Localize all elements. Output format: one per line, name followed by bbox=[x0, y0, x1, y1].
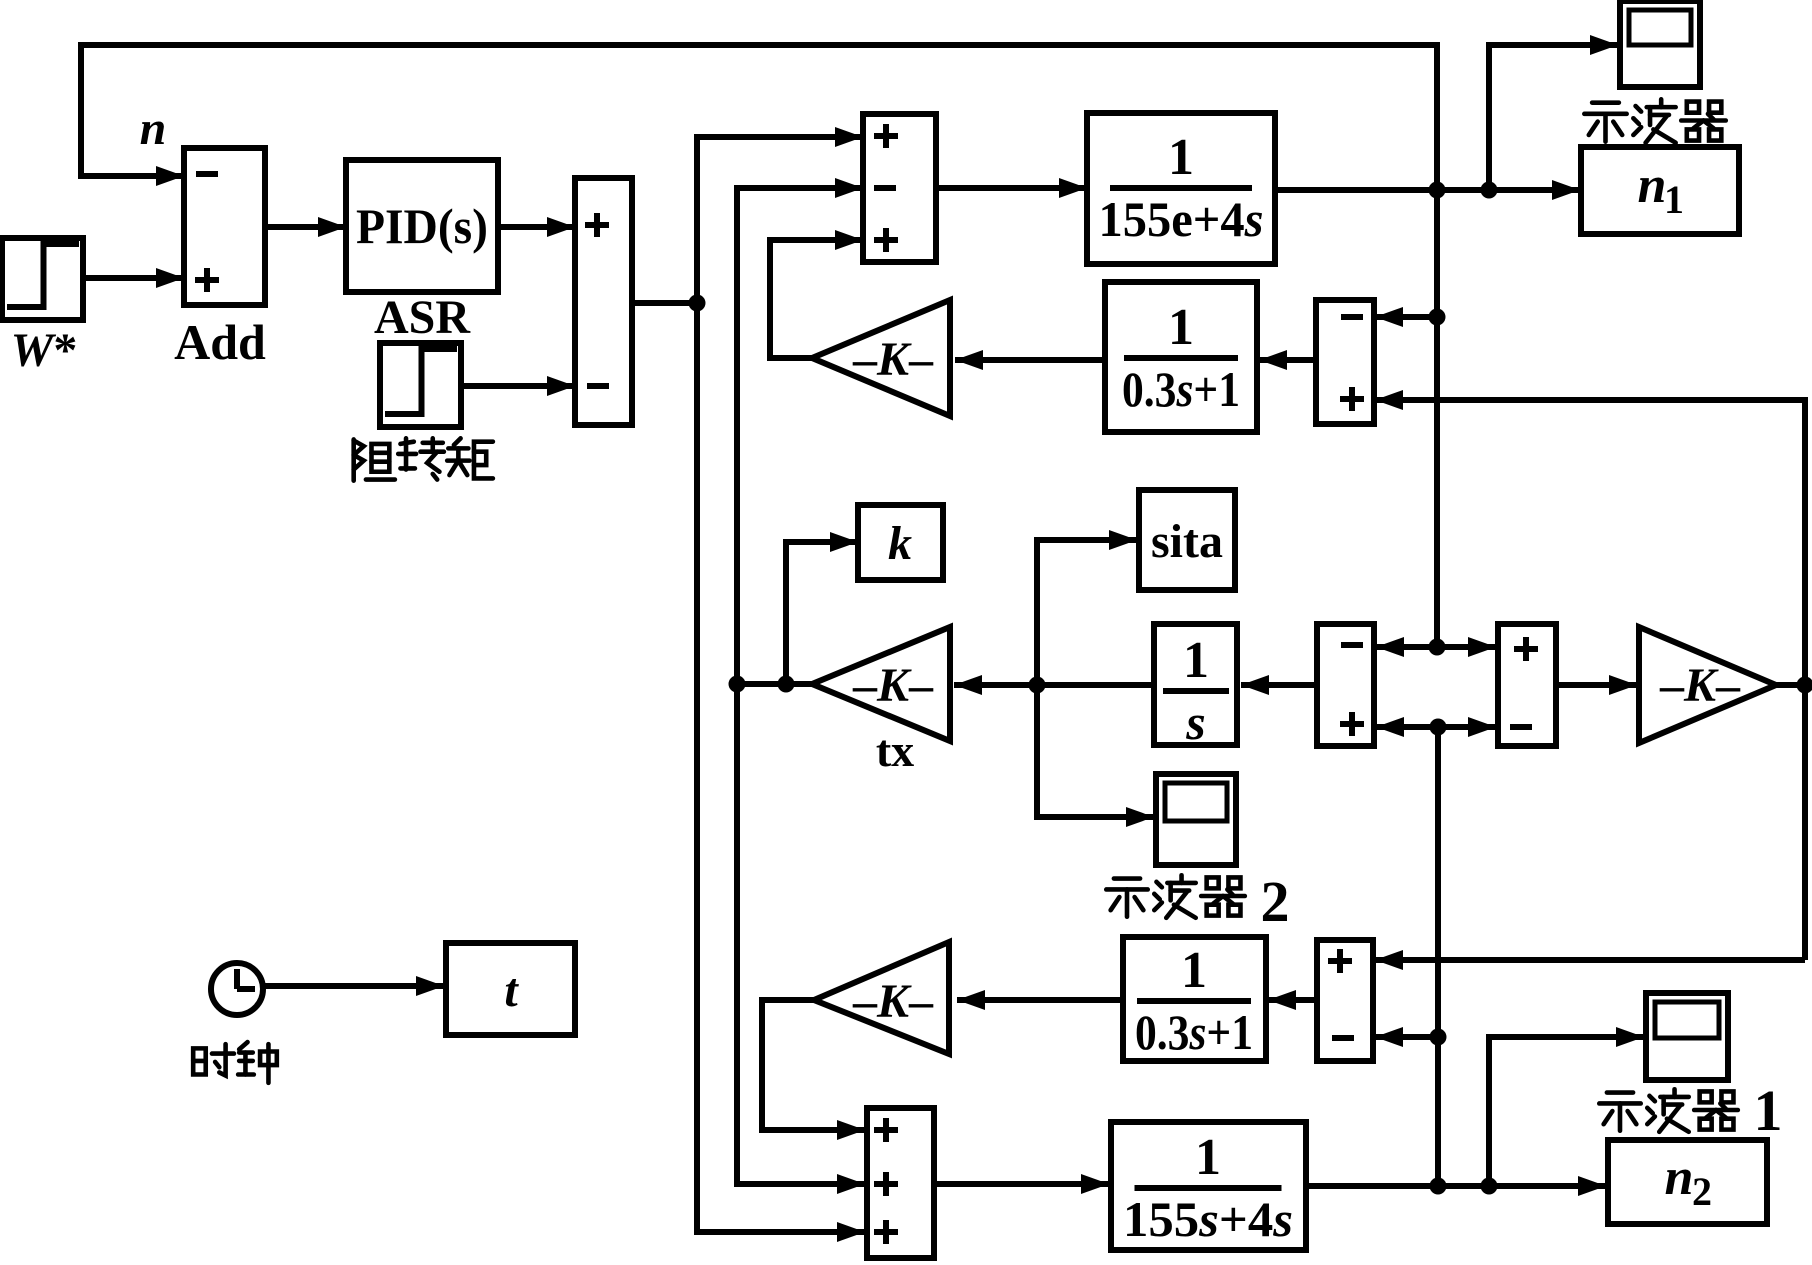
output block sita bbox=[1139, 490, 1235, 590]
wire n1 vertical to S3/S4 top inputs bbox=[1376, 637, 1496, 657]
svg-text:PID(s): PID(s) bbox=[356, 198, 488, 254]
label 示波器 2 bbox=[1106, 869, 1289, 934]
svg-text:1: 1 bbox=[1181, 942, 1207, 999]
wire far right vertical to S2 plus bbox=[1375, 390, 1805, 960]
transfer fcn 1/155s+4s bbox=[1111, 1122, 1306, 1250]
scope 示波器 bbox=[1620, 1, 1700, 87]
label n (feedback signal) bbox=[140, 102, 167, 155]
step source W* bbox=[2, 238, 83, 320]
wire S2 to 1/0.3s+1 bbox=[1259, 350, 1316, 370]
step source 阻转矩 bbox=[380, 343, 461, 427]
node n2 junction bbox=[1430, 1178, 1447, 1195]
wire mid node to sita bbox=[1037, 530, 1137, 685]
wire vertical x697 to S1 and S5 bbox=[697, 127, 865, 1242]
sum block S2 bbox=[1316, 300, 1374, 424]
wire S3 to 1/s bbox=[1241, 675, 1317, 695]
wire S0 output to node A bbox=[632, 300, 697, 306]
wire 阻转矩 to S0 minus bbox=[461, 376, 575, 396]
wire n2 vertical to S3/S4 bottom inputs bbox=[1376, 717, 1496, 1186]
wire n1 branch to S2 minus bbox=[1375, 307, 1446, 327]
svg-text:1: 1 bbox=[1183, 632, 1209, 689]
svg-text:–K–: –K– bbox=[852, 659, 934, 712]
wire tx output to x737 node bbox=[729, 676, 813, 693]
wire top feedback n1 to Add minus bbox=[81, 45, 1437, 647]
wire branch to scope1 bbox=[1489, 1027, 1644, 1186]
wire W* to Add plus bbox=[83, 268, 184, 288]
gain tx -K- bbox=[812, 627, 950, 741]
label W* bbox=[11, 324, 78, 377]
label 示波器 bbox=[1584, 99, 1725, 142]
svg-text:W*: W* bbox=[11, 324, 78, 377]
svg-text:0.3s+1: 0.3s+1 bbox=[1122, 361, 1240, 417]
svg-text:Add: Add bbox=[174, 314, 266, 370]
svg-text:n: n bbox=[1665, 1149, 1694, 1206]
sum block S3 bbox=[1317, 624, 1374, 746]
wire 1/155e+4s to n1 bbox=[1275, 180, 1580, 200]
gain block k bbox=[858, 505, 943, 580]
svg-text:1: 1 bbox=[1168, 299, 1194, 356]
svg-text:sita: sita bbox=[1151, 515, 1223, 568]
wire 1/s to tx gain bbox=[954, 675, 1154, 695]
transfer fcn 1/s bbox=[1154, 624, 1237, 750]
svg-text:1: 1 bbox=[1195, 1129, 1221, 1186]
sum block S1 bbox=[863, 114, 936, 262]
node n1-feedback junction bbox=[1429, 182, 1446, 199]
sum block Add bbox=[184, 148, 265, 305]
svg-text:–K–: –K– bbox=[852, 975, 934, 1028]
wire 1/0.3s+1 to G4 bbox=[957, 990, 1123, 1010]
label 示波器 1 bbox=[1599, 1078, 1782, 1143]
label 阻转矩 bbox=[354, 438, 493, 480]
transfer fcn 1/0.3s+1 bottom bbox=[1123, 937, 1266, 1061]
wire branch to scope bbox=[1489, 35, 1618, 190]
sum block S5 bbox=[867, 1108, 934, 1258]
wire clock to t bbox=[265, 976, 444, 996]
label ASR bbox=[374, 291, 471, 344]
wire 1/155s+4s to n2 bbox=[1306, 1176, 1606, 1196]
node A junction bbox=[689, 295, 706, 312]
wire 1/0.3s+1 to G1 bbox=[955, 350, 1105, 370]
svg-text:155e+4s: 155e+4s bbox=[1099, 191, 1264, 247]
wire mid node to scope2 bbox=[1037, 685, 1154, 827]
wire S6 to 1/0.3s+1 bottom bbox=[1268, 990, 1317, 1010]
wire S4 to G2 bbox=[1556, 675, 1637, 695]
svg-text:1: 1 bbox=[1168, 129, 1194, 186]
label 时钟 bbox=[193, 1042, 277, 1083]
label Add bbox=[174, 314, 266, 370]
svg-text:2: 2 bbox=[1692, 1169, 1712, 1214]
svg-text:1: 1 bbox=[1754, 1078, 1783, 1143]
wire n2 vertical to S6 minus bbox=[1375, 1027, 1447, 1047]
wire PID to S0 plus bbox=[498, 217, 575, 237]
svg-text:k: k bbox=[888, 517, 912, 570]
scope 示波器1 bbox=[1646, 993, 1728, 1080]
node n2-scope1 junction bbox=[1481, 1178, 1498, 1195]
svg-text:1: 1 bbox=[1664, 177, 1684, 222]
PID controller block ASR bbox=[346, 160, 498, 292]
svg-text:–K–: –K– bbox=[852, 333, 934, 386]
output block n2 bbox=[1608, 1140, 1767, 1224]
svg-text:155s+4s: 155s+4s bbox=[1123, 1191, 1293, 1247]
sum block S4 bbox=[1498, 624, 1556, 746]
scope 示波器2 bbox=[1156, 774, 1236, 865]
output block t bbox=[446, 943, 575, 1035]
svg-text:s: s bbox=[1185, 694, 1205, 750]
svg-text:0.3s+1: 0.3s+1 bbox=[1135, 1004, 1253, 1060]
clock source 时钟 bbox=[211, 963, 263, 1015]
gain G1 -K- bbox=[812, 300, 950, 416]
svg-text:n: n bbox=[140, 102, 167, 155]
label tx bbox=[876, 725, 914, 776]
wire G2 to far right vertical bbox=[1776, 677, 1812, 694]
wire G4 to S5 first plus bbox=[762, 1000, 865, 1140]
wire tx node to k bbox=[786, 532, 858, 684]
wire far-right to S6 plus bbox=[1375, 950, 1805, 970]
output block n1 bbox=[1581, 147, 1739, 234]
gain G4 -K- bbox=[814, 942, 949, 1054]
wire vertical x737 to S1 minus and S5 mid bbox=[737, 178, 865, 1194]
svg-text:tx: tx bbox=[876, 725, 914, 776]
node n1-scope junction bbox=[1481, 182, 1498, 199]
wire S5 to 1/155s+4s bbox=[934, 1174, 1109, 1194]
wire Add to PID bbox=[265, 217, 346, 237]
sum block S6 bbox=[1317, 940, 1373, 1061]
transfer fcn 1/155e+4s bbox=[1087, 113, 1275, 264]
gain G2 -K- bbox=[1639, 627, 1776, 743]
svg-text:–K–: –K– bbox=[1659, 659, 1741, 712]
svg-text:t: t bbox=[504, 964, 519, 1017]
svg-text:n: n bbox=[1638, 157, 1667, 214]
wire G1 output to S1 plus bbox=[770, 230, 863, 358]
sum block S0 bbox=[575, 178, 632, 425]
svg-text:ASR: ASR bbox=[374, 291, 471, 344]
svg-text:2: 2 bbox=[1261, 869, 1290, 934]
wire S1 to 1/155e+4s bbox=[936, 178, 1087, 198]
transfer fcn 1/0.3s+1 top bbox=[1105, 282, 1257, 432]
